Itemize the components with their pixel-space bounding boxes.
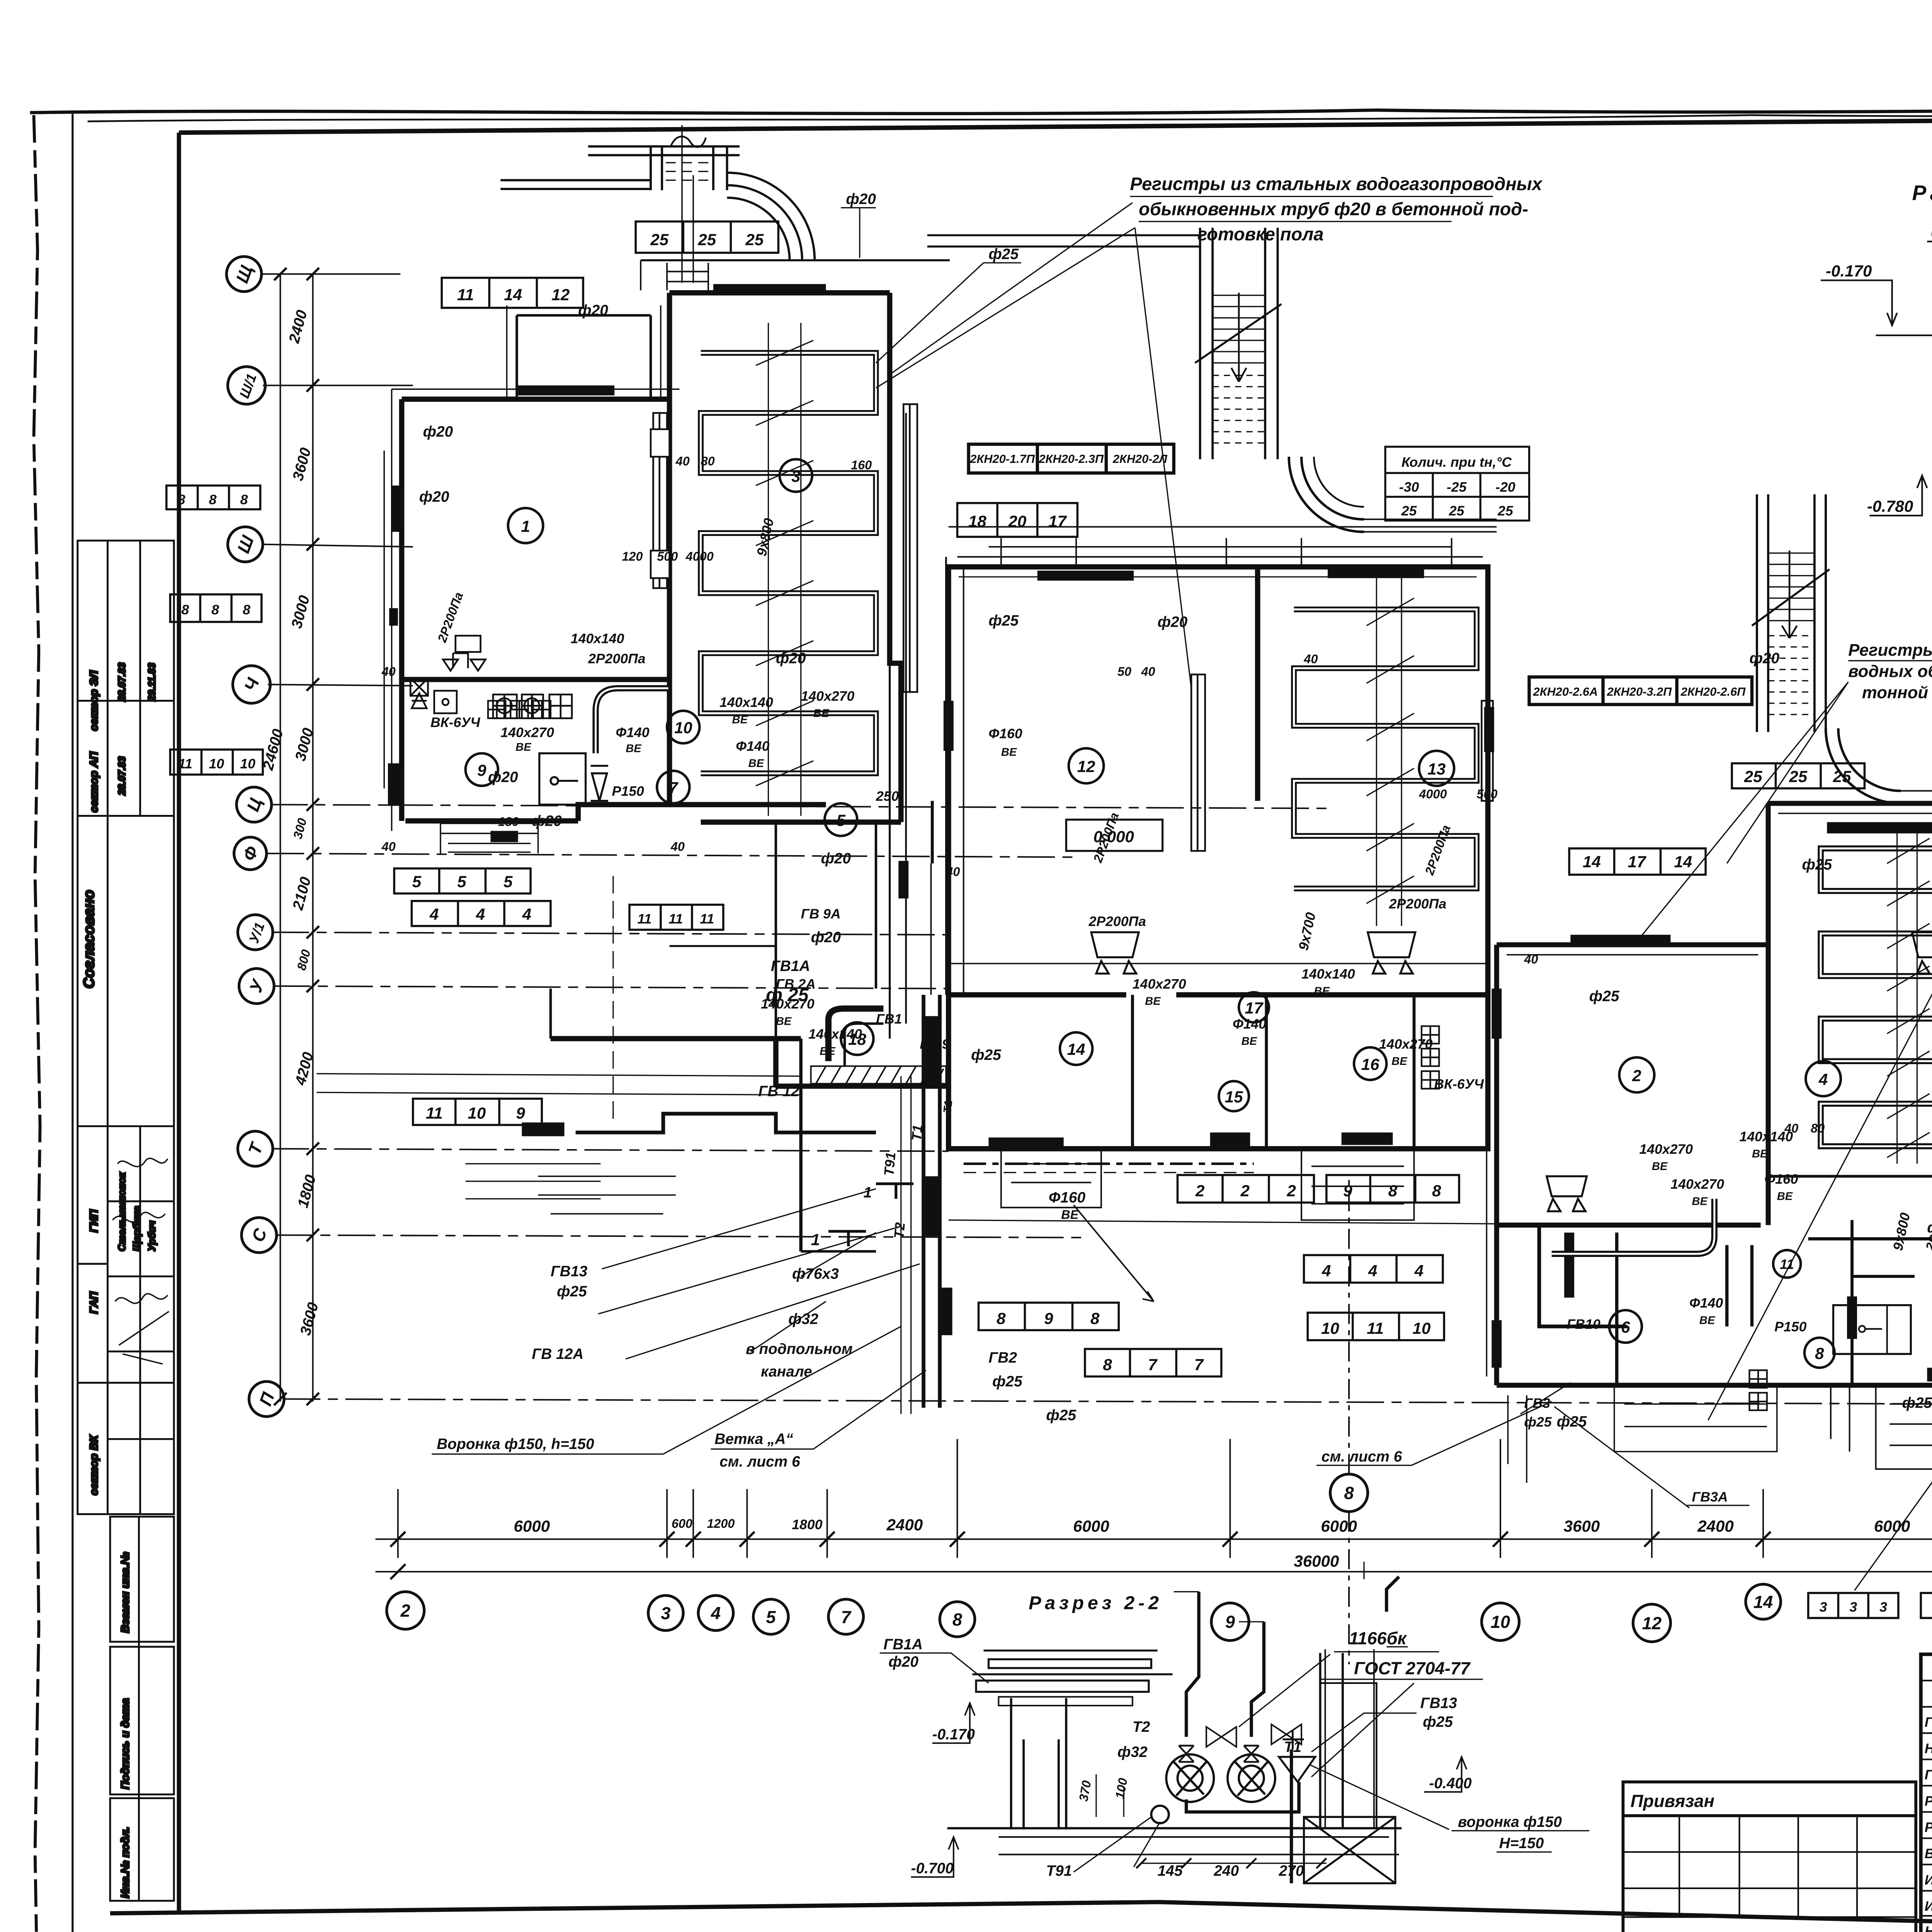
svg-text:Нач.СТО: Нач.СТО — [1925, 1741, 1932, 1756]
svg-text:2КН20-2.3П: 2КН20-2.3П — [1038, 452, 1104, 466]
svg-text:ф25: ф25 — [992, 1373, 1023, 1390]
svg-text:14: 14 — [1583, 852, 1601, 871]
svg-text:11: 11 — [700, 911, 714, 927]
svg-text:ф25: ф25 — [971, 1047, 1002, 1063]
svg-text:5: 5 — [503, 872, 513, 891]
steps below middle block — [949, 1149, 1497, 1224]
svg-text:7: 7 — [1148, 1355, 1158, 1374]
svg-text:ГВ1А: ГВ1А — [771, 958, 810, 975]
svg-text:120: 120 — [622, 549, 643, 563]
svg-text:тонной подготовке пола: тонной подготовке пола — [1862, 683, 1932, 702]
svg-text:2КН20-1.7П: 2КН20-1.7П — [969, 452, 1035, 466]
svg-text:140х140: 140х140 — [719, 695, 773, 710]
register comb room 4 — [1821, 849, 1932, 1146]
svg-text:ГВ10: ГВ10 — [1567, 1316, 1600, 1332]
stair 1 (top middle) — [1195, 228, 1281, 459]
level marks — [1821, 241, 1932, 515]
svg-text:Ф140: Ф140 — [616, 724, 649, 740]
svg-text:140х140: 140х140 — [1301, 966, 1355, 981]
svg-text:ф25: ф25 — [988, 246, 1019, 262]
svg-text:36000: 36000 — [1294, 1552, 1339, 1570]
svg-text:Т2: Т2 — [1133, 1719, 1150, 1735]
right block thin offsets and steps — [1486, 813, 1932, 1483]
svg-text:4: 4 — [522, 905, 531, 923]
svg-text:Т2: Т2 — [891, 1222, 908, 1239]
svg-text:9: 9 — [516, 1104, 526, 1122]
chimney under the 8 axis — [1282, 1649, 1395, 1883]
svg-text:ф20: ф20 — [419, 489, 449, 505]
svg-text:11: 11 — [668, 911, 683, 927]
svg-text:Воронка ф150, h=150: Воронка ф150, h=150 — [437, 1436, 594, 1452]
svg-text:Т91: Т91 — [1046, 1862, 1072, 1879]
svg-text:сектор ВК: сектор ВК — [88, 1435, 100, 1495]
svg-text:180: 180 — [498, 815, 519, 828]
svg-text:8: 8 — [1344, 1483, 1354, 1503]
svg-text:1166бк: 1166бк — [1349, 1628, 1407, 1648]
svg-text:Ф160: Ф160 — [988, 726, 1022, 742]
plus-boxes (ВК units) — [488, 701, 1767, 1410]
svg-text:12: 12 — [1642, 1613, 1662, 1633]
svg-text:13: 13 — [1427, 760, 1446, 778]
svg-text:Р150: Р150 — [612, 784, 644, 799]
svg-text:ГВ 12А: ГВ 12А — [532, 1346, 583, 1362]
svg-text:ГВ13: ГВ13 — [1420, 1695, 1458, 1712]
svg-text:8: 8 — [240, 492, 248, 507]
svg-text:Ф140: Ф140 — [1689, 1295, 1723, 1311]
F160 underground duct below rooms 14/15 — [964, 1163, 1254, 1164]
svg-text:ф25: ф25 — [988, 612, 1019, 629]
tambour hatch strip — [811, 1066, 946, 1083]
svg-text:ф20: ф20 — [532, 813, 562, 829]
middle block top parapet — [949, 527, 1497, 567]
svg-text:14: 14 — [1753, 1592, 1773, 1612]
register comb room 13 — [1294, 609, 1477, 888]
svg-text:25: 25 — [1833, 767, 1851, 786]
svg-text:140х270: 140х270 — [1639, 1141, 1693, 1157]
VK cluster room 9 — [410, 636, 572, 718]
svg-text:Ф140: Ф140 — [1233, 1016, 1266, 1032]
svg-text:14: 14 — [504, 286, 522, 304]
svg-text:ГОСТ 2704-77: ГОСТ 2704-77 — [1354, 1658, 1471, 1678]
svg-text:10: 10 — [468, 1104, 486, 1122]
svg-text:Взамен инв.№: Взамен инв.№ — [119, 1552, 132, 1633]
svg-text:-0.170: -0.170 — [932, 1726, 975, 1743]
svg-text:Р150: Р150 — [1774, 1319, 1806, 1335]
svg-text:ГВ13: ГВ13 — [551, 1263, 588, 1280]
svg-text:Ф160: Ф160 — [1049, 1189, 1086, 1206]
staff rows — [1925, 1714, 1932, 1932]
svg-text:ВЕ: ВЕ — [1777, 1190, 1793, 1203]
pipes — [1186, 1577, 1399, 1812]
F140 duct elbow — [596, 688, 668, 753]
svg-text:10: 10 — [1491, 1612, 1510, 1632]
svg-text:ф 25: ф 25 — [766, 985, 809, 1005]
svg-text:-0.700: -0.700 — [911, 1860, 954, 1877]
svg-text:ВЕ: ВЕ — [1752, 1148, 1768, 1160]
svg-text:40: 40 — [1784, 1121, 1798, 1135]
steps below right block — [1831, 1385, 1932, 1469]
svg-text:Т1: Т1 — [909, 1124, 925, 1141]
svg-text:ВЕ: ВЕ — [1061, 1207, 1079, 1221]
svg-text:5: 5 — [412, 872, 422, 891]
svg-text:7: 7 — [669, 779, 679, 797]
svg-text:40: 40 — [675, 454, 690, 468]
pillars — [947, 1653, 1402, 1854]
svg-text:2КН20-2Л: 2КН20-2Л — [1112, 452, 1168, 466]
svg-text:160: 160 — [851, 458, 872, 472]
svg-text:28.07.83: 28.07.83 — [117, 756, 128, 796]
svg-text:10: 10 — [1321, 1319, 1339, 1337]
svg-text:ВЕ: ВЕ — [748, 757, 765, 770]
left block lower rooms (9,5,7,18) — [576, 1114, 876, 1133]
svg-text:28.07.83: 28.07.83 — [117, 662, 128, 702]
labels — [883, 1628, 1562, 1879]
svg-text:1: 1 — [811, 1230, 820, 1248]
svg-text:Регистры из стальных водогазоп: Регистры из стальных водогазопро- — [1848, 641, 1932, 660]
svg-text:10: 10 — [209, 756, 224, 771]
svg-text:140х270: 140х270 — [801, 689, 855, 704]
svg-text:3: 3 — [661, 1604, 670, 1623]
right annotation — [1848, 641, 1932, 702]
svg-text:140х270: 140х270 — [1670, 1177, 1724, 1192]
svg-text:11: 11 — [1367, 1319, 1384, 1337]
svg-text:2: 2 — [1240, 1182, 1250, 1200]
svg-text:Колич. при tн,°С: Колич. при tн,°С — [1401, 454, 1512, 470]
rotated labels — [435, 517, 1932, 1252]
svg-text:5: 5 — [766, 1607, 776, 1627]
vestibule above room 1 — [517, 315, 651, 399]
svg-text:140х140: 140х140 — [571, 631, 624, 646]
hatched pipe circles — [1151, 1754, 1275, 1823]
svg-text:4: 4 — [1368, 1262, 1377, 1280]
left-bottom leader texts — [437, 958, 1402, 1470]
svg-text:водных обыкновенных труб ф20 в: водных обыкновенных труб ф20 в бе- — [1848, 662, 1932, 681]
svg-text:4000: 4000 — [685, 549, 714, 563]
stair 2 (right) — [1752, 494, 1830, 732]
svg-text:25: 25 — [745, 231, 764, 249]
svg-text:1200: 1200 — [707, 1517, 735, 1531]
svg-text:ГВ 12: ГВ 12 — [759, 1083, 799, 1100]
svg-text:ВЕ: ВЕ — [1314, 985, 1330, 998]
svg-text:ВЕ: ВЕ — [1652, 1160, 1668, 1173]
long leader lines bottom-left — [598, 203, 1570, 1466]
svg-text:ВЕ: ВЕ — [1145, 995, 1161, 1007]
funnel — [1279, 1757, 1315, 1782]
svg-text:8: 8 — [209, 492, 217, 507]
svg-text:ВЕ: ВЕ — [1692, 1196, 1708, 1208]
svg-text:18: 18 — [968, 512, 986, 530]
svg-text:2Р200Па: 2Р200Па — [1389, 896, 1446, 912]
canopy and slab — [972, 1651, 1172, 1706]
svg-text:2: 2 — [400, 1601, 410, 1621]
room 3 — [670, 292, 890, 294]
svg-text:Гл.сп.СТО: Гл.сп.СТО — [1925, 1767, 1932, 1782]
svg-text:2КН20-2.6А: 2КН20-2.6А — [1533, 685, 1598, 699]
middle block inner offset — [959, 577, 1477, 577]
svg-text:14: 14 — [1067, 1040, 1085, 1058]
svg-text:2400: 2400 — [886, 1516, 923, 1534]
svg-text:4: 4 — [1818, 1070, 1828, 1088]
svg-text:Привязан: Привязан — [1631, 1791, 1714, 1811]
svg-text:40: 40 — [1304, 652, 1318, 666]
svg-text:Рук.сект.: Рук.сект. — [1925, 1793, 1932, 1809]
svg-text:6000: 6000 — [514, 1517, 550, 1535]
left sidebar stamp column — [78, 541, 174, 1901]
svg-text:см. лист 6: см. лист 6 — [1321, 1449, 1402, 1465]
svg-text:4000: 4000 — [1418, 787, 1447, 801]
svg-text:ф32: ф32 — [788, 1311, 818, 1327]
svg-text:ГИП: ГИП — [88, 1209, 100, 1233]
svg-text:ф20: ф20 — [1158, 614, 1188, 630]
corridor link canopy->stair1 — [927, 235, 1200, 247]
svg-text:Согласовано: Согласовано — [81, 890, 97, 988]
svg-text:-25: -25 — [1447, 480, 1467, 495]
svg-text:-30: -30 — [1399, 480, 1419, 495]
canopy top-left + stack — [500, 136, 950, 290]
arc corridor stair2 to room 4 — [1826, 728, 1901, 803]
svg-text:ВЕ: ВЕ — [813, 707, 830, 720]
svg-text:Разрез 2-2: Разрез 2-2 — [1029, 1593, 1162, 1614]
svg-text:15: 15 — [1225, 1088, 1243, 1106]
room 1 outline — [402, 398, 670, 400]
svg-text:25: 25 — [1789, 767, 1807, 786]
svg-text:25: 25 — [697, 231, 716, 249]
svg-text:Щербина: Щербина — [132, 1206, 143, 1252]
svg-text:4: 4 — [476, 905, 485, 923]
svg-text:2: 2 — [1286, 1182, 1296, 1200]
svg-text:-0.170: -0.170 — [1826, 262, 1872, 280]
svg-text:8: 8 — [1090, 1309, 1100, 1327]
svg-text:ф20: ф20 — [888, 1654, 918, 1670]
levels — [911, 1703, 1467, 1877]
svg-text:5: 5 — [457, 872, 466, 891]
svg-text:2400: 2400 — [1697, 1517, 1734, 1535]
svg-text:8: 8 — [1432, 1182, 1441, 1200]
svg-text:40: 40 — [1141, 665, 1155, 679]
svg-text:ГВ 9: ГВ 9 — [920, 1036, 949, 1052]
right block rooms 2,4,6,9,8,11 — [1497, 803, 1932, 1385]
svg-text:40: 40 — [381, 665, 396, 679]
svg-text:Регистры из стальных водогазоп: Регистры из стальных водогазопроводных — [1130, 173, 1543, 194]
svg-text:канале: канале — [761, 1363, 812, 1380]
svg-text:4: 4 — [711, 1604, 721, 1623]
register comb room 3 — [701, 353, 876, 773]
svg-text:80: 80 — [701, 454, 715, 468]
svg-text:240: 240 — [1213, 1862, 1239, 1879]
svg-text:ГВ3А: ГВ3А — [1692, 1489, 1728, 1505]
svg-text:40: 40 — [381, 840, 396, 854]
svg-text:ВК-6УЧ: ВК-6УЧ — [1434, 1076, 1484, 1092]
svg-text:17: 17 — [1245, 999, 1264, 1017]
svg-text:80: 80 — [1811, 1121, 1825, 1135]
svg-text:-0.400: -0.400 — [1429, 1775, 1472, 1792]
svg-text:11: 11 — [457, 286, 474, 304]
svg-text:2Р200Па: 2Р200Па — [1088, 913, 1146, 929]
svg-text:9: 9 — [477, 761, 486, 779]
svg-text:ГВ2: ГВ2 — [988, 1350, 1017, 1366]
svg-text:25: 25 — [650, 231, 668, 249]
svg-text:16: 16 — [1361, 1055, 1379, 1073]
svg-text:ф20: ф20 — [811, 929, 841, 946]
svg-text:7: 7 — [841, 1607, 852, 1627]
svg-text:сектор АП: сектор АП — [88, 751, 100, 813]
svg-text:2: 2 — [1632, 1066, 1641, 1085]
svg-text:29.11.83: 29.11.83 — [147, 663, 158, 701]
svg-text:ВЕ: ВЕ — [1242, 1035, 1258, 1048]
0.000 box — [1066, 820, 1162, 851]
svg-text:140х270: 140х270 — [1133, 976, 1186, 992]
svg-text:Вед.анж.: Вед.анж. — [1925, 1846, 1932, 1861]
funnels (2Р200Па symbols) — [1091, 932, 1932, 1211]
privyazan block — [1623, 1782, 1916, 1932]
svg-text:11: 11 — [178, 756, 192, 771]
svg-text:145: 145 — [1158, 1862, 1183, 1879]
svg-text:Ф140: Ф140 — [736, 738, 769, 754]
svg-text:обыкновенных труб ф20 в бетонн: обыкновенных труб ф20 в бетонной под- — [1139, 199, 1528, 219]
solid black radiator bars — [388, 284, 1932, 1381]
svg-text:ГВ 9А: ГВ 9А — [801, 906, 841, 922]
svg-text:ф25: ф25 — [1589, 988, 1620, 1005]
svg-text:ф20: ф20 — [846, 191, 876, 207]
svg-text:8: 8 — [243, 602, 250, 617]
svg-text:Н.контр.: Н.контр. — [1925, 1923, 1932, 1932]
svg-text:40: 40 — [1524, 952, 1538, 966]
svg-text:25: 25 — [1449, 503, 1465, 519]
register type boxes (heavy) — [969, 444, 1932, 1557]
svg-text:8: 8 — [1103, 1355, 1112, 1374]
svg-text:6000: 6000 — [1321, 1517, 1357, 1535]
main title block — [1921, 1654, 1932, 1932]
svg-text:2: 2 — [1195, 1182, 1204, 1200]
svg-text:ГВ1А: ГВ1А — [883, 1636, 923, 1653]
svg-text:8: 8 — [952, 1610, 963, 1629]
svg-text:Т91: Т91 — [881, 1151, 898, 1177]
kolich table — [1385, 447, 1529, 520]
svg-text:25: 25 — [1744, 767, 1762, 786]
left axis bubbles and vertical dim chain — [260, 268, 1932, 1405]
svg-text:Разрез 1-1: Разрез 1-1 — [1912, 181, 1932, 205]
svg-text:готовке пола: готовке пола — [1197, 224, 1323, 244]
svg-text:8: 8 — [178, 492, 185, 507]
svg-text:ф25: ф25 — [1524, 1414, 1552, 1430]
svg-text:Н=150: Н=150 — [1499, 1835, 1544, 1852]
valves — [1179, 1725, 1301, 1762]
svg-text:11: 11 — [637, 911, 651, 927]
svg-text:17: 17 — [1628, 852, 1647, 871]
svg-text:1800: 1800 — [792, 1517, 822, 1532]
svg-text:11: 11 — [426, 1104, 443, 1122]
svg-text:5: 5 — [837, 811, 846, 829]
svg-text:40: 40 — [670, 840, 685, 854]
svg-text:20: 20 — [1008, 512, 1027, 530]
svg-text:ф25: ф25 — [1423, 1714, 1453, 1730]
axis leaders to plan — [260, 274, 401, 274]
svg-text:7: 7 — [1194, 1355, 1204, 1374]
middle block rooms 12/13 over 14/15/16/17 — [949, 567, 1488, 1149]
svg-text:-0.780: -0.780 — [1867, 497, 1913, 515]
three-cell label boxes — [167, 221, 1932, 1618]
svg-text:2КН20-2.6П: 2КН20-2.6П — [1680, 685, 1746, 699]
svg-text:ГАП: ГАП — [88, 1291, 100, 1314]
svg-text:ф25: ф25 — [557, 1283, 587, 1300]
svg-text:ф20: ф20 — [488, 769, 518, 786]
svg-text:14: 14 — [1674, 852, 1692, 871]
svg-text:8: 8 — [1815, 1344, 1824, 1362]
arc corridor stair1 to middle block — [1289, 457, 1364, 532]
svg-text:Рук.гр.: Рук.гр. — [1925, 1820, 1932, 1835]
top annotation — [1130, 173, 1543, 244]
svg-text:Урбич: Урбич — [147, 1221, 158, 1252]
misc pipe runs — [932, 801, 1915, 1327]
svg-text:25: 25 — [1401, 503, 1417, 519]
svg-text:ВЕ: ВЕ — [1391, 1055, 1408, 1068]
svg-text:10: 10 — [240, 756, 255, 771]
svg-text:Подпись и дата: Подпись и дата — [119, 1698, 132, 1789]
svg-text:2КН20-3.2П: 2КН20-3.2П — [1607, 685, 1672, 699]
svg-text:25: 25 — [1497, 503, 1514, 519]
svg-text:Инв.№ подл.: Инв.№ подл. — [119, 1827, 132, 1898]
room number bubbles — [466, 459, 1932, 1368]
svg-text:8: 8 — [997, 1309, 1006, 1327]
svg-text:ф25: ф25 — [1046, 1407, 1077, 1424]
svg-text:8: 8 — [1388, 1182, 1398, 1200]
svg-text:40: 40 — [946, 865, 960, 879]
svg-text:ф20: ф20 — [1749, 650, 1779, 667]
svg-text:6000: 6000 — [1073, 1517, 1109, 1535]
scattered pipe diameter labels — [419, 191, 1932, 1430]
svg-text:ф25: ф25 — [1902, 1395, 1932, 1411]
svg-text:ВЕ: ВЕ — [1699, 1314, 1716, 1327]
bottom dimension chain — [376, 1439, 1932, 1589]
svg-text:3600: 3600 — [1564, 1517, 1600, 1535]
svg-text:3: 3 — [1820, 1599, 1827, 1615]
svg-text:4: 4 — [1414, 1262, 1423, 1280]
duct size labels — [430, 631, 1932, 1505]
svg-text:воронка ф150: воронка ф150 — [1458, 1814, 1562, 1830]
P150 sink box — [539, 753, 608, 805]
GV9 elbow — [828, 1009, 883, 1061]
svg-text:4: 4 — [1321, 1262, 1331, 1280]
svg-text:ф20: ф20 — [578, 302, 608, 319]
svg-text:17: 17 — [1048, 512, 1067, 530]
svg-text:ВЕ: ВЕ — [776, 1015, 792, 1027]
svg-text:9: 9 — [1343, 1182, 1352, 1200]
svg-text:3: 3 — [791, 467, 800, 485]
svg-text:ВЕ: ВЕ — [515, 741, 532, 753]
vertical outlined radiators — [651, 404, 1932, 1119]
svg-text:3: 3 — [1849, 1599, 1857, 1615]
svg-text:9: 9 — [1225, 1612, 1235, 1632]
svg-text:см. лист 6: см. лист 6 — [719, 1453, 800, 1470]
svg-text:ф20: ф20 — [423, 423, 453, 440]
svg-text:1: 1 — [521, 517, 530, 535]
svg-text:-20: -20 — [1495, 480, 1515, 495]
thin offsets left block — [384, 125, 693, 1214]
svg-text:ф32: ф32 — [1117, 1744, 1148, 1760]
svg-text:12: 12 — [551, 286, 570, 304]
svg-text:ф20: ф20 — [776, 650, 806, 667]
svg-text:140х140: 140х140 — [808, 1026, 862, 1042]
corridor between left and middle blocks — [890, 413, 946, 1414]
svg-text:ВЕ: ВЕ — [626, 742, 642, 755]
svg-text:Инженер: Инженер — [1925, 1872, 1932, 1888]
svg-text:Стельмашонок: Стельмашонок — [117, 1172, 128, 1251]
svg-text:50: 50 — [1117, 665, 1131, 679]
svg-text:ВК-6УЧ: ВК-6УЧ — [430, 715, 480, 730]
leaders — [880, 1562, 1589, 1872]
svg-text:250: 250 — [876, 789, 899, 804]
svg-text:Ветка „А“: Ветка „А“ — [714, 1431, 793, 1447]
